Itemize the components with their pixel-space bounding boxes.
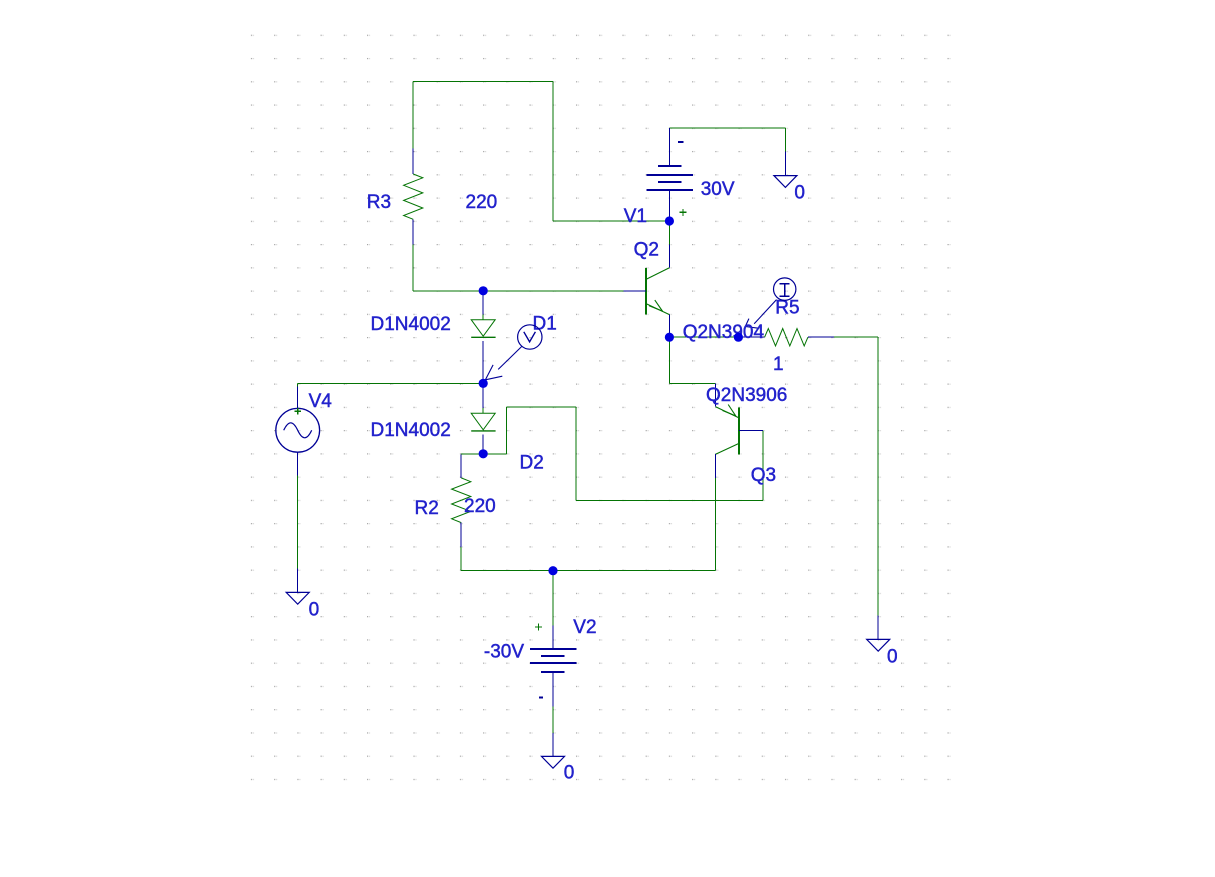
plus mark V1 (679, 211, 686, 213)
svg-text:1: 1 (773, 354, 784, 375)
svg-text:V2: V2 (573, 617, 596, 638)
wire (784, 128, 786, 152)
svg-text:D1N4002: D1N4002 (371, 314, 451, 335)
wire (461, 570, 715, 572)
wire (668, 337, 670, 383)
diode D1 (482, 291, 484, 315)
wire (461, 453, 483, 455)
ground (right) (877, 616, 879, 640)
svg-text:-30V: -30V (484, 641, 524, 662)
junction D2/R2 (479, 449, 488, 458)
junction D1/D2/V4 (479, 379, 488, 388)
svg-text:0: 0 (794, 182, 805, 203)
wire (715, 478, 717, 571)
svg-text:0: 0 (887, 647, 898, 668)
wire (297, 476, 299, 569)
svg-text:R5: R5 (775, 298, 799, 319)
diode D2 (482, 383, 484, 408)
wire (413, 81, 553, 83)
svg-text:V1: V1 (624, 206, 647, 227)
svg-text:D1N4002: D1N4002 (371, 420, 451, 441)
wire (298, 382, 484, 384)
transistor Q3 (738, 408, 740, 455)
plus mark V2 (535, 626, 542, 628)
wire (506, 407, 508, 454)
battery V1 (668, 128, 670, 167)
resistor R2 (460, 454, 462, 478)
wire (762, 430, 764, 500)
probe Imarker (774, 278, 796, 300)
wire (413, 290, 623, 292)
battery V2 (552, 626, 554, 649)
wire (669, 127, 785, 129)
source V4 (297, 387, 299, 409)
svg-text:220: 220 (464, 496, 496, 517)
svg-text:0: 0 (309, 600, 320, 621)
wire (576, 500, 763, 502)
svg-text:Q3: Q3 (751, 465, 776, 486)
svg-text:220: 220 (466, 192, 498, 213)
resistor R5 (738, 336, 764, 338)
svg-text:Q2N3906: Q2N3906 (706, 385, 787, 406)
wire (297, 383, 299, 386)
transistor Q2 (645, 268, 647, 314)
wire (483, 453, 506, 455)
wire (575, 407, 577, 500)
wire (507, 406, 577, 408)
wire (553, 220, 669, 222)
svg-text:R2: R2 (415, 498, 439, 519)
svg-text:Q2N3904: Q2N3904 (683, 322, 765, 343)
svg-text:0: 0 (564, 763, 575, 784)
probe V1marker (518, 325, 542, 349)
svg-text:V4: V4 (309, 391, 333, 412)
wire (834, 336, 878, 338)
svg-text:D1: D1 (533, 314, 557, 335)
ground (V1) (784, 152, 786, 176)
wire (669, 382, 715, 384)
svg-text:R3: R3 (367, 192, 391, 213)
wire (412, 82, 414, 149)
svg-text:Q2: Q2 (634, 239, 659, 260)
junction bottom/V2 (548, 566, 557, 575)
wire (552, 571, 554, 626)
junction V1+ (665, 216, 674, 225)
resistor R3 (412, 148, 414, 174)
wire (460, 547, 462, 571)
wire (668, 221, 670, 245)
svg-text:30V: 30V (701, 179, 735, 200)
junction base/D1 (479, 286, 488, 295)
ground (V4) (297, 569, 299, 593)
wire (412, 245, 414, 291)
wire (552, 695, 554, 733)
junction Q2 emitter (665, 333, 674, 342)
svg-text:D2: D2 (520, 453, 544, 474)
wire (552, 82, 554, 222)
grid dots (247, 30, 953, 784)
plus mark V4 (295, 410, 301, 412)
junction R5 pin (734, 333, 743, 342)
wire (669, 336, 738, 338)
wire (877, 337, 879, 616)
ground (V2) (552, 733, 554, 756)
